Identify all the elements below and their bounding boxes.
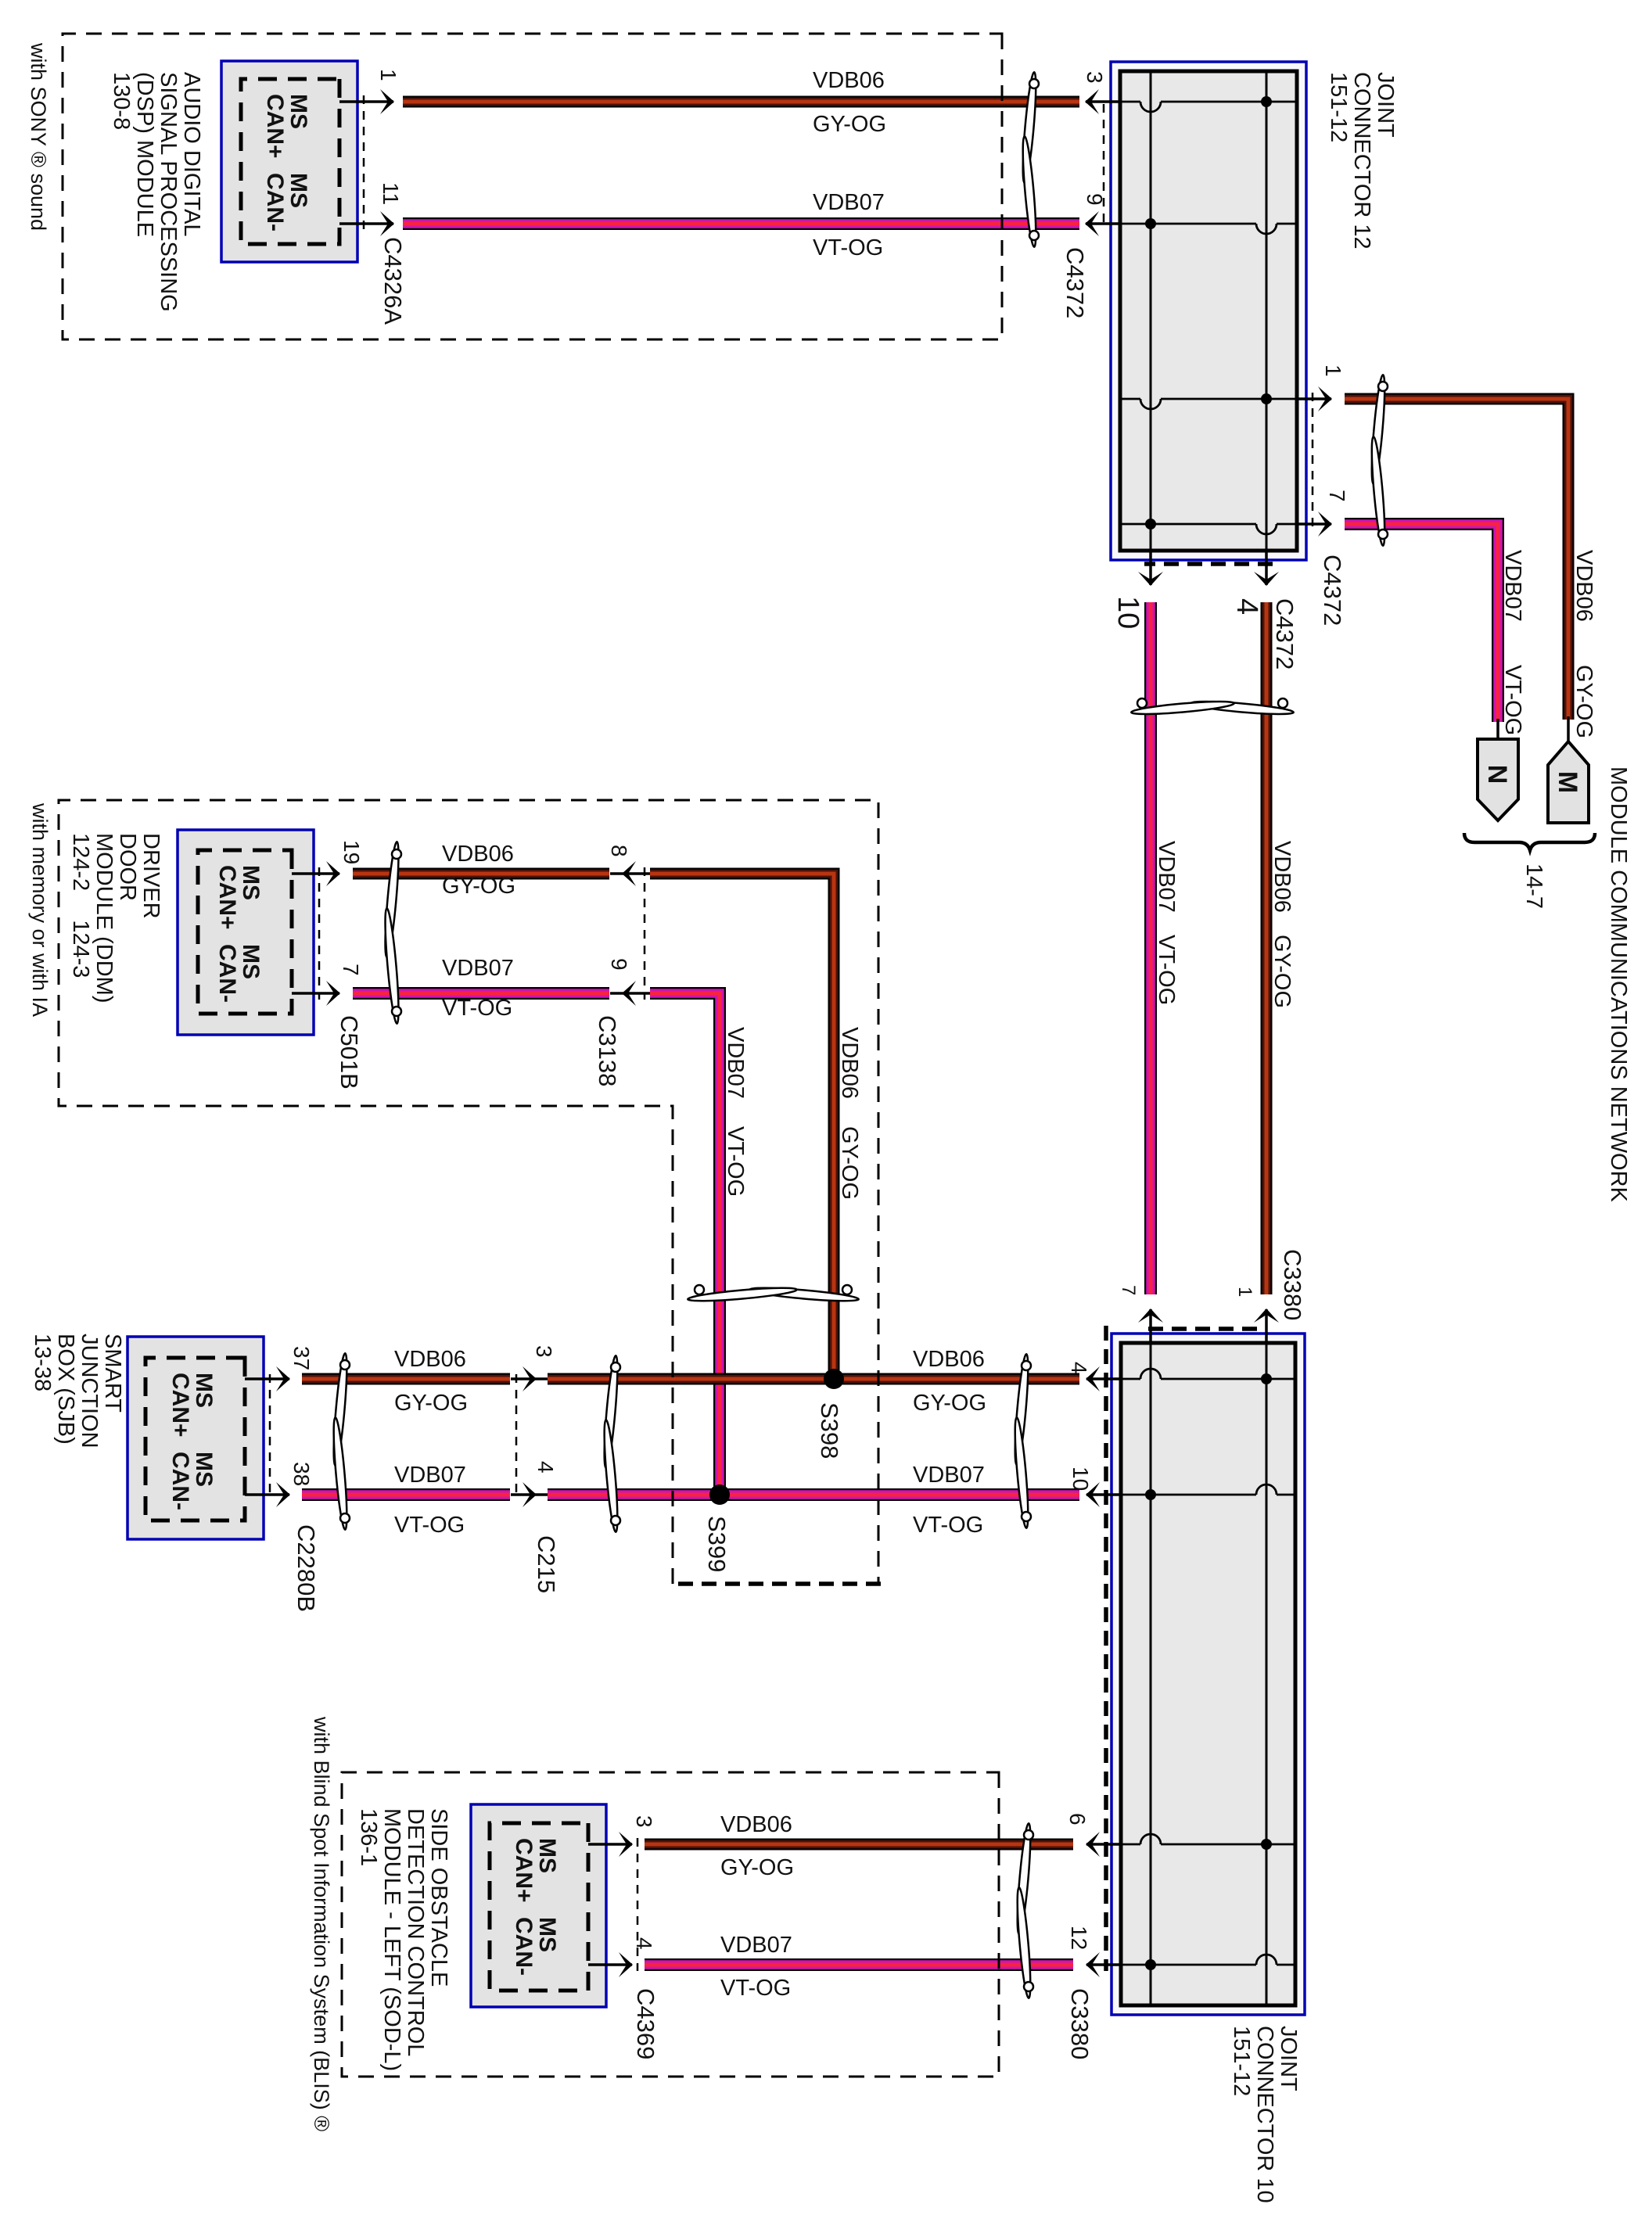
svg-text:SIDE OBSTACLE: SIDE OBSTACLE: [426, 1808, 451, 1987]
svg-text:CAN-: CAN-: [214, 944, 240, 1003]
wire: VDB07 JC10 pin 12 down to SOD-L pin 4: [645, 1958, 1073, 1971]
svg-text:C4326A: C4326A: [379, 237, 407, 325]
svg-text:JUNCTION: JUNCTION: [77, 1334, 102, 1449]
wire: DSP pin 11 VDB07 riser to JC12 pin 9: [403, 217, 1079, 230]
connector C4372 dashed line at JC12 pins 3/9: [1103, 104, 1105, 227]
svg-text:CAN+: CAN+: [262, 94, 288, 159]
twisted pair symbol on M/N risers: [1369, 375, 1388, 546]
svg-text:VDB07: VDB07: [394, 1463, 466, 1488]
svg-text:9: 9: [607, 958, 631, 971]
wire: VDB06 from C3138 pin 8 to S398: [650, 874, 834, 1373]
dashed harness box: with BLIS region: [342, 1772, 999, 2077]
wire: VDB06 bus JC12 pin 4 to JC10 pin 1: [1261, 602, 1273, 1294]
connector C4326A dashed line: [363, 95, 365, 230]
SJB pin 38 arrow and lead: [245, 1493, 289, 1496]
svg-text:BOX (SJB): BOX (SJB): [53, 1334, 78, 1445]
svg-text:C4372: C4372: [1271, 598, 1298, 670]
DSP pin 11 arrow and lead: [339, 222, 393, 225]
svg-text:CAN-: CAN-: [511, 1917, 537, 1976]
svg-text:DRIVER: DRIVER: [138, 833, 163, 919]
connector C3138 dashed line: [644, 867, 646, 1000]
twisted pair symbol on DDM risers: [382, 842, 401, 1024]
lead to N: [1496, 719, 1499, 739]
svg-text:C3380: C3380: [1066, 1988, 1094, 2059]
svg-text:6: 6: [1065, 1813, 1090, 1825]
svg-text:VT-OG: VT-OG: [394, 1513, 465, 1538]
JC10 pin 10 arrow and lead: [1086, 1493, 1122, 1496]
svg-text:C3380: C3380: [1279, 1249, 1306, 1320]
wire: VDB07 C215 pin 4 to SJB pin 38: [302, 1488, 510, 1501]
svg-text:8: 8: [607, 845, 631, 857]
SOD-L inner dashed connector box: [490, 1823, 588, 1991]
svg-text:1: 1: [1321, 364, 1345, 377]
svg-text:13-38: 13-38: [30, 1334, 55, 1391]
JC10 pin 6 internal line: [1161, 1843, 1295, 1846]
svg-text:with memory or with IA: with memory or with IA: [28, 802, 52, 1017]
twisted pair symbol between C215 and SJB: [331, 1353, 350, 1530]
svg-text:C4372: C4372: [1319, 555, 1346, 626]
SOD-L pin 3 arrow and lead: [588, 1843, 632, 1846]
connector C2280B dashed line: [269, 1374, 271, 1499]
module box: SIDE OBSTACLE DETECTION CONTROL MODULE LEFT: [471, 1804, 606, 2007]
JC12 VDB07 internal bus: [1150, 71, 1152, 551]
svg-text:14-7: 14-7: [1521, 863, 1546, 909]
connector C501B dashed line: [318, 867, 321, 1000]
svg-text:151-12: 151-12: [1326, 72, 1351, 142]
svg-text:CONNECTOR 10: CONNECTOR 10: [1252, 2026, 1277, 2203]
svg-text:CAN+: CAN+: [214, 865, 240, 930]
svg-text:GY-OG: GY-OG: [1270, 935, 1295, 1008]
svg-text:7: 7: [1325, 490, 1349, 502]
brace 14-7: [1464, 833, 1595, 850]
svg-text:JOINT: JOINT: [1373, 72, 1398, 138]
wire: VDB06 JC10 pin 4 down to S398 and C215: [548, 1373, 1079, 1385]
svg-text:MS: MS: [286, 173, 311, 208]
svg-text:MS: MS: [191, 1373, 217, 1408]
connector C4369 dashed line: [637, 1838, 639, 1971]
network terminator N: [1478, 739, 1518, 820]
svg-text:3: 3: [1083, 71, 1107, 84]
svg-text:C4369: C4369: [632, 1988, 659, 2059]
SJB pin 37 arrow and lead: [245, 1377, 289, 1380]
svg-text:VDB06: VDB06: [720, 1812, 792, 1837]
svg-text:S398: S398: [816, 1402, 843, 1459]
svg-text:VDB06: VDB06: [913, 1347, 985, 1372]
svg-text:136-1: 136-1: [356, 1808, 381, 1866]
svg-text:4: 4: [632, 1937, 656, 1950]
JC12 VDB06 internal bus: [1266, 71, 1268, 551]
svg-text:VT-OG: VT-OG: [442, 996, 512, 1021]
svg-text:124-2 124-3: 124-2 124-3: [68, 833, 93, 978]
svg-text:VDB06: VDB06: [813, 68, 885, 93]
svg-text:CONNECTOR 12: CONNECTOR 12: [1349, 72, 1374, 250]
svg-text:VDB06: VDB06: [394, 1347, 466, 1372]
dashed harness region: with memory or with IA (L-shape): [59, 800, 878, 1584]
svg-text:with Blind Spot Information Sy: with Blind Spot Information System (BLIS…: [310, 1716, 333, 2131]
svg-text:MODULE (DDM): MODULE (DDM): [92, 833, 117, 1003]
svg-text:4: 4: [1230, 598, 1263, 615]
module box: AUDIO DSP MODULE: [221, 61, 357, 262]
svg-text:VT-OG: VT-OG: [720, 1976, 791, 2001]
svg-text:C3138: C3138: [594, 1015, 621, 1086]
svg-text:JOINT: JOINT: [1276, 2026, 1301, 2091]
twisted pair symbol on SOD-L risers: [1015, 1823, 1033, 1998]
connector C215 dashed line: [515, 1374, 518, 1499]
SOD-L pin 4 arrow and lead: [588, 1963, 632, 1966]
DDM inner dashed connector box: [198, 850, 292, 1014]
JC10 pin 12 internal line: [1277, 1964, 1295, 1966]
svg-text:VDB07: VDB07: [913, 1463, 985, 1488]
connector C3380 bold dashed line under JC10: [1104, 1326, 1108, 1971]
svg-text:GY-OG: GY-OG: [913, 1391, 986, 1416]
svg-text:19: 19: [339, 840, 364, 864]
DDM pin 7 arrow and lead: [292, 992, 339, 995]
svg-text:1: 1: [1234, 1287, 1255, 1297]
JC12 pin 9 arrow and lead: [1086, 222, 1122, 225]
svg-text:37: 37: [289, 1346, 314, 1370]
svg-text:38: 38: [289, 1462, 314, 1486]
JC10 pin 6 arrow and lead: [1086, 1843, 1122, 1846]
JC12 pin 7 internal line: [1277, 523, 1297, 526]
svg-text:CAN-: CAN-: [262, 173, 288, 232]
svg-text:CAN+: CAN+: [167, 1373, 193, 1438]
svg-text:C2280B: C2280B: [293, 1524, 320, 1612]
connector box: JOINT CONNECTOR 10: [1112, 1334, 1305, 2015]
connector box: JOINT CONNECTOR 12: [1111, 62, 1306, 560]
connector C4372 dashed line at JC12 pins 1/7: [1312, 393, 1314, 530]
svg-text:GY-OG: GY-OG: [813, 112, 886, 137]
dashed harness box: with SONY sound region: [63, 34, 1002, 339]
svg-text:3: 3: [532, 1345, 556, 1358]
C215 pin 3 arrow: [511, 1377, 548, 1380]
svg-text:4: 4: [533, 1461, 558, 1474]
connector C3380 bold dashed line at JC10 pins 1/7: [1144, 1326, 1257, 1331]
svg-text:MS: MS: [286, 94, 311, 129]
DDM pin 19 arrow and lead: [292, 872, 339, 875]
svg-text:10: 10: [1068, 1466, 1093, 1491]
svg-text:VDB06: VDB06: [1571, 550, 1596, 622]
wire: DDM pin 7 VDB07 riser below C3138: [353, 987, 609, 1000]
svg-text:VDB07: VDB07: [1500, 550, 1525, 622]
svg-text:VDB07: VDB07: [723, 1027, 748, 1099]
svg-text:11: 11: [379, 182, 403, 205]
svg-text:MS: MS: [191, 1452, 217, 1487]
svg-text:C501B: C501B: [336, 1015, 363, 1090]
JC10 pin 12 arrow and lead: [1086, 1963, 1122, 1966]
wire: VDB07 from C3138 pin 9 to S399: [650, 993, 720, 1488]
svg-text:VT-OG: VT-OG: [1154, 935, 1179, 1005]
svg-text:VT-OG: VT-OG: [813, 235, 883, 260]
splice S399: [709, 1484, 730, 1505]
svg-text:MS: MS: [534, 1838, 560, 1873]
connector C4372 bold dashed line at JC12 pins 4/10: [1144, 562, 1273, 566]
svg-text:DETECTION CONTROL: DETECTION CONTROL: [403, 1808, 428, 2056]
svg-text:VDB06: VDB06: [442, 842, 514, 867]
svg-text:7: 7: [1118, 1285, 1139, 1295]
twisted pair symbol between splices and C215: [602, 1355, 620, 1532]
wire: DDM pin 19 VDB06 riser below C3138: [353, 868, 609, 880]
DSP pin 1 arrow and lead: [339, 100, 393, 103]
wire: JC12 pin 7 VDB07 up and right to N terminator: [1345, 524, 1498, 722]
svg-text:DOOR: DOOR: [115, 833, 140, 901]
SJB inner dashed connector box: [145, 1358, 245, 1520]
bold dashed edge of memory region: [673, 1581, 881, 1586]
JC12 pin 7 arrow and lead: [1295, 522, 1331, 526]
wire: VDB06 C215 pin 3 to SJB pin 37: [302, 1373, 510, 1385]
JC12 pin 1 internal line: [1161, 398, 1297, 400]
svg-text:3: 3: [632, 1815, 656, 1828]
C3138 pin 9 arrow: [610, 992, 650, 995]
JC10 pin 4 arrow and lead: [1086, 1377, 1122, 1380]
svg-text:MS: MS: [238, 944, 264, 979]
svg-text:151-12: 151-12: [1229, 2026, 1254, 2096]
svg-text:GY-OG: GY-OG: [1571, 665, 1596, 738]
module box: SMART JUNCTION BOX: [127, 1337, 264, 1539]
JC12 pin 4 arrow and lead: [1265, 549, 1268, 585]
twisted pair symbol on S398/S399 branch wires: [688, 1285, 859, 1304]
svg-text:VDB07: VDB07: [720, 1933, 792, 1958]
svg-text:VT-OG: VT-OG: [1500, 665, 1525, 735]
svg-text:VDB07: VDB07: [442, 956, 514, 981]
svg-text:AUDIO DIGITAL: AUDIO DIGITAL: [179, 72, 204, 237]
svg-text:GY-OG: GY-OG: [442, 874, 515, 899]
C3138 pin 8 arrow: [610, 872, 650, 875]
svg-text:10: 10: [1112, 596, 1144, 629]
svg-text:S399: S399: [703, 1516, 731, 1572]
svg-text:VT-OG: VT-OG: [723, 1126, 748, 1197]
wire: VDB07 bus JC12 pin 10 to JC10 pin 7: [1144, 602, 1157, 1294]
svg-text:12: 12: [1067, 1926, 1091, 1950]
wire: DSP pin 1 VDB06 riser to JC12 pin 3: [403, 96, 1079, 108]
twisted pair symbol on DSP risers: [1020, 72, 1039, 247]
svg-text:with SONY ® sound: with SONY ® sound: [27, 42, 50, 231]
JC12 pin 3 arrow and lead: [1086, 100, 1122, 103]
svg-text:VDB07: VDB07: [1154, 841, 1179, 913]
svg-text:SIGNAL PROCESSING: SIGNAL PROCESSING: [156, 72, 181, 312]
svg-text:C215: C215: [533, 1535, 560, 1593]
svg-text:CAN-: CAN-: [167, 1452, 193, 1510]
svg-text:VDB06: VDB06: [1270, 841, 1295, 913]
wire: VDB06 JC10 pin 6 down to SOD-L pin 3: [645, 1839, 1073, 1851]
svg-text:MS: MS: [534, 1917, 560, 1952]
JC12 pin 1 arrow and lead: [1295, 397, 1331, 400]
svg-text:VDB07: VDB07: [813, 190, 885, 215]
svg-text:7: 7: [339, 964, 363, 976]
svg-text:SMART: SMART: [100, 1334, 125, 1413]
JC10 pin 4 internal line: [1161, 1378, 1295, 1380]
svg-text:VDB06: VDB06: [837, 1027, 862, 1099]
svg-text:C4372: C4372: [1061, 247, 1089, 318]
DSP inner dashed connector box: [241, 79, 339, 244]
JC12 pin 9 internal line: [1277, 223, 1297, 225]
twisted pair symbol on JC12-JC10 buses: [1131, 698, 1294, 716]
JC10 pin 10 internal line: [1277, 1494, 1295, 1496]
svg-text:MS: MS: [238, 865, 264, 900]
svg-text:130-8: 130-8: [109, 72, 134, 130]
svg-text:GY-OG: GY-OG: [837, 1126, 862, 1200]
svg-text:MODULE COMMUNICATIONS NETWORK: MODULE COMMUNICATIONS NETWORK: [1606, 766, 1631, 1203]
svg-text:(DSP) MODULE: (DSP) MODULE: [132, 72, 157, 237]
svg-text:GY-OG: GY-OG: [720, 1855, 794, 1880]
twisted pair symbol between JC10 and splices: [1012, 1354, 1031, 1528]
svg-text:CAN+: CAN+: [511, 1838, 537, 1903]
JC12 pin 3 internal line: [1161, 101, 1297, 103]
wire: JC12 pin 1 VDB06 up and right to M terminator: [1345, 399, 1568, 720]
wire: VDB07 JC10 pin 10 down to S399 and C215: [548, 1488, 1079, 1501]
svg-text:1: 1: [376, 69, 400, 81]
module box: DRIVER DOOR MODULE: [178, 830, 314, 1035]
svg-text:MODULE - LEFT (SOD-L): MODULE - LEFT (SOD-L): [379, 1808, 404, 2071]
network terminator M: [1548, 741, 1589, 823]
JC10 pin 7 arrow and lead: [1149, 1309, 1152, 1344]
JC12 pin 10 arrow and lead: [1149, 549, 1152, 585]
JC10 pin 1 arrow and lead: [1265, 1309, 1268, 1344]
svg-text:N: N: [1482, 765, 1512, 784]
JC10 VDB06 internal bus: [1266, 1343, 1268, 2005]
svg-text:GY-OG: GY-OG: [394, 1391, 468, 1416]
svg-text:VT-OG: VT-OG: [913, 1513, 983, 1538]
svg-text:4: 4: [1067, 1362, 1091, 1374]
JC10 VDB07 internal bus: [1150, 1343, 1152, 2005]
svg-text:M: M: [1553, 771, 1582, 793]
splice S398: [824, 1369, 844, 1389]
C215 pin 4 arrow: [511, 1493, 548, 1496]
lead to M: [1567, 716, 1570, 741]
